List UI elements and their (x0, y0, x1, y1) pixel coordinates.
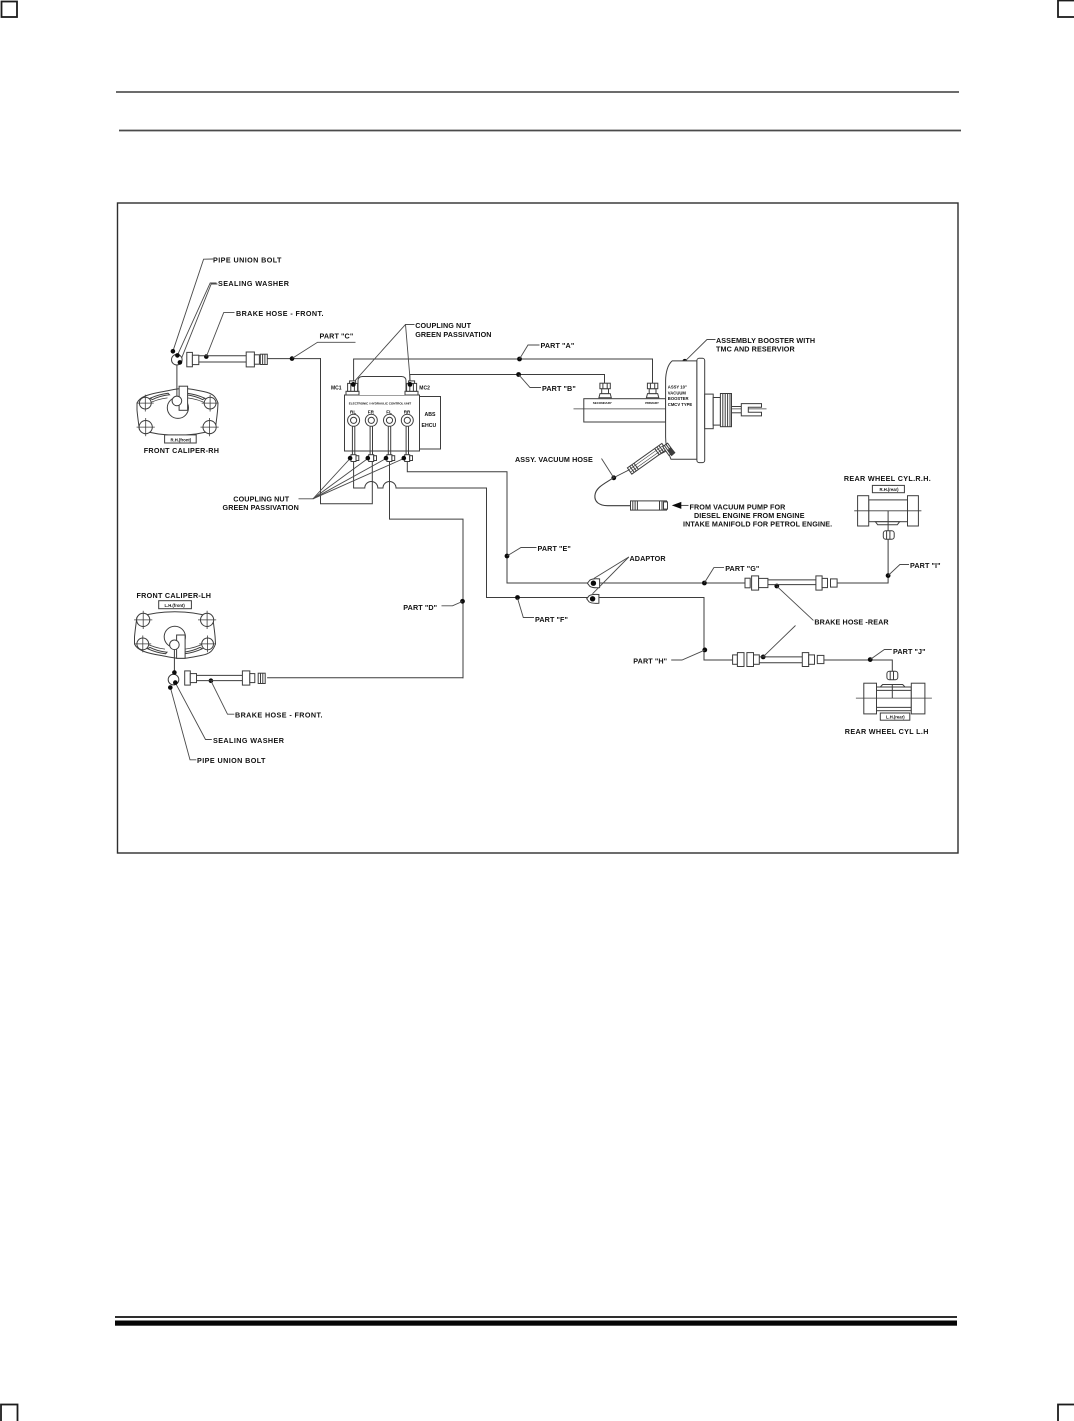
svg-text:PART "E": PART "E" (538, 544, 571, 553)
svg-text:FR: FR (368, 410, 375, 415)
svg-text:R.H.(rear): R.H.(rear) (880, 487, 900, 492)
svg-text:BRAKE HOSE -REAR: BRAKE HOSE -REAR (814, 617, 889, 626)
svg-text:ELECTRONIC / HYDRAULIC CONTROL: ELECTRONIC / HYDRAULIC CONTROL UNIT (349, 402, 411, 406)
svg-text:FRONT CALIPER-LH: FRONT CALIPER-LH (137, 591, 212, 600)
svg-text:PART "D": PART "D" (403, 603, 437, 612)
svg-text:PART "H": PART "H" (633, 657, 667, 666)
svg-text:ASSEMBLY BOOSTER WITH: ASSEMBLY BOOSTER WITH (716, 336, 815, 345)
svg-text:BOOSTER: BOOSTER (668, 396, 689, 401)
svg-text:R.H.(front): R.H.(front) (171, 437, 192, 442)
svg-text:GREEN PASSIVATION: GREEN PASSIVATION (415, 330, 491, 339)
svg-text:SEALING WASHER: SEALING WASHER (218, 279, 290, 288)
svg-text:SECONDARY: SECONDARY (593, 401, 613, 405)
svg-text:PART "A": PART "A" (541, 341, 575, 350)
svg-text:PIPE UNION BOLT: PIPE UNION BOLT (213, 255, 282, 264)
svg-text:MC1: MC1 (331, 385, 342, 391)
svg-text:PART "J": PART "J" (893, 647, 926, 656)
svg-text:VACUUM: VACUUM (668, 390, 687, 395)
svg-text:BRAKE HOSE - FRONT.: BRAKE HOSE - FRONT. (235, 711, 323, 720)
svg-text:PRIMARY: PRIMARY (645, 401, 660, 405)
svg-text:ASSY 10": ASSY 10" (668, 385, 687, 390)
svg-text:DIESEL ENGINE FROM ENGINE: DIESEL ENGINE FROM ENGINE (694, 511, 805, 520)
svg-text:TMC AND RESERVIOR: TMC AND RESERVIOR (716, 345, 795, 354)
svg-text:RR: RR (404, 410, 411, 415)
svg-text:SEALING WASHER: SEALING WASHER (213, 736, 285, 745)
svg-text:REAR WHEEL CYL.R.H.: REAR WHEEL CYL.R.H. (844, 474, 931, 483)
svg-text:EHCU: EHCU (422, 423, 437, 429)
svg-text:GREEN PASSIVATION: GREEN PASSIVATION (223, 503, 299, 512)
svg-text:PART "G": PART "G" (725, 564, 759, 573)
svg-text:L.H.(front): L.H.(front) (165, 603, 186, 608)
svg-text:L.H.(rear): L.H.(rear) (886, 715, 905, 720)
svg-text:PART "C": PART "C" (320, 332, 354, 341)
svg-text:RL: RL (350, 410, 356, 415)
svg-text:FL: FL (386, 410, 392, 415)
svg-text:MC2: MC2 (419, 385, 430, 391)
svg-text:ADAPTOR: ADAPTOR (630, 554, 667, 563)
svg-text:PIPE UNION BOLT: PIPE UNION BOLT (197, 756, 266, 765)
svg-text:BRAKE HOSE - FRONT.: BRAKE HOSE - FRONT. (236, 309, 324, 318)
svg-text:CMCV TYPE: CMCV TYPE (668, 402, 693, 407)
svg-text:ASSY. VACUUM HOSE: ASSY. VACUUM HOSE (515, 455, 593, 464)
svg-text:INTAKE MANIFOLD FOR PETROL ENG: INTAKE MANIFOLD FOR PETROL ENGINE. (683, 520, 832, 529)
svg-text:ABS: ABS (425, 412, 436, 418)
svg-text:PART "F": PART "F" (535, 615, 568, 624)
svg-text:FRONT CALIPER-RH: FRONT CALIPER-RH (144, 446, 220, 455)
svg-text:COUPLING NUT: COUPLING NUT (415, 321, 471, 330)
svg-text:PART "B": PART "B" (542, 384, 576, 393)
svg-text:PART "I": PART "I" (910, 561, 941, 570)
svg-text:REAR WHEEL CYL L.H: REAR WHEEL CYL L.H (845, 727, 929, 736)
svg-text:FROM VACUUM PUMP FOR: FROM VACUUM PUMP FOR (690, 502, 787, 511)
